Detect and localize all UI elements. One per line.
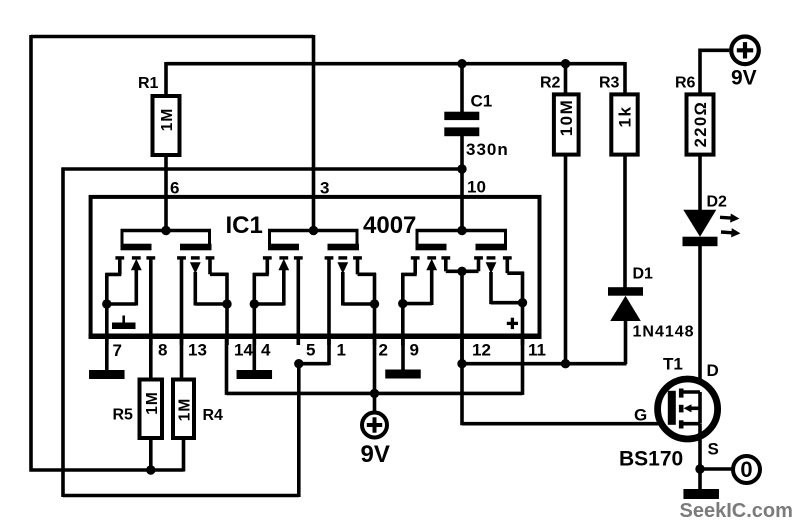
svg-text:9V: 9V bbox=[361, 441, 390, 468]
svg-text:6: 6 bbox=[170, 179, 179, 198]
svg-text:BS170: BS170 bbox=[619, 448, 683, 471]
svg-text:D: D bbox=[707, 361, 719, 380]
svg-text:11: 11 bbox=[528, 341, 546, 360]
svg-text:D1: D1 bbox=[633, 266, 654, 283]
svg-text:2: 2 bbox=[379, 341, 388, 360]
svg-text:1M: 1M bbox=[177, 398, 194, 422]
svg-text:S: S bbox=[708, 440, 719, 459]
svg-text:C1: C1 bbox=[471, 92, 493, 111]
svg-text:D2: D2 bbox=[707, 194, 728, 211]
svg-text:G: G bbox=[634, 406, 647, 425]
svg-text:SeekIC.com: SeekIC.com bbox=[680, 500, 793, 522]
svg-text:T1: T1 bbox=[663, 355, 683, 374]
svg-text:1k: 1k bbox=[616, 106, 635, 128]
svg-text:1M: 1M bbox=[144, 391, 161, 415]
svg-text:R2: R2 bbox=[540, 75, 561, 92]
svg-text:9: 9 bbox=[410, 341, 419, 360]
svg-text:R4: R4 bbox=[203, 407, 224, 424]
svg-text:1N4148: 1N4148 bbox=[633, 324, 695, 341]
svg-text:12: 12 bbox=[472, 341, 491, 360]
svg-text:0: 0 bbox=[740, 457, 752, 482]
svg-text:10: 10 bbox=[467, 178, 486, 197]
svg-text:1: 1 bbox=[337, 341, 346, 360]
svg-text:7: 7 bbox=[113, 341, 122, 360]
svg-text:3: 3 bbox=[320, 179, 329, 198]
svg-text:14: 14 bbox=[234, 341, 253, 360]
svg-text:R3: R3 bbox=[599, 75, 620, 92]
svg-text:5: 5 bbox=[306, 341, 315, 360]
svg-text:10M: 10M bbox=[557, 99, 576, 137]
svg-text:1M: 1M bbox=[159, 108, 176, 132]
svg-text:9V: 9V bbox=[731, 67, 757, 90]
svg-text:13: 13 bbox=[188, 341, 207, 360]
svg-text:R1: R1 bbox=[138, 75, 159, 92]
svg-text:220Ω: 220Ω bbox=[692, 101, 710, 148]
svg-text:IC1: IC1 bbox=[226, 212, 263, 239]
svg-text:4: 4 bbox=[261, 341, 271, 360]
svg-text:330n: 330n bbox=[466, 140, 509, 159]
svg-text:R6: R6 bbox=[675, 75, 696, 92]
svg-text:8: 8 bbox=[158, 341, 167, 360]
svg-text:R5: R5 bbox=[113, 407, 134, 424]
svg-text:4007: 4007 bbox=[363, 212, 416, 239]
